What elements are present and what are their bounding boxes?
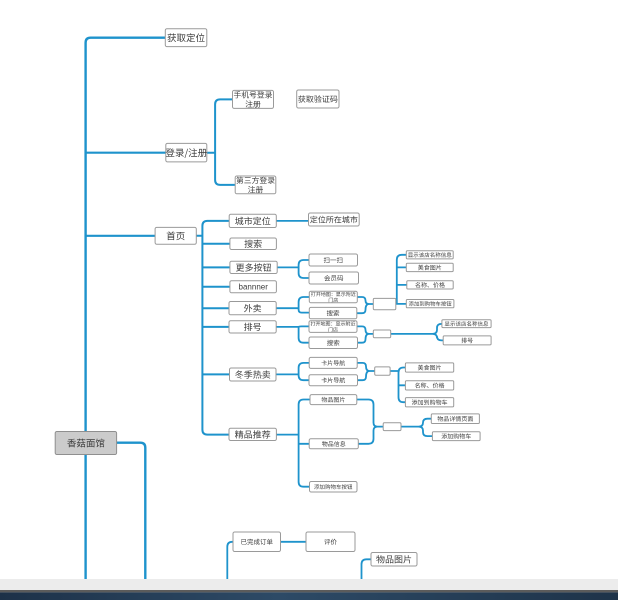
node 外卖 xyxy=(229,302,276,315)
node junction J2 xyxy=(373,330,390,338)
node junction J1 xyxy=(373,298,396,309)
node junction J3 xyxy=(375,367,390,375)
wire 精品推荐 converge J4 xyxy=(357,400,383,444)
node 物品图片 bottom xyxy=(371,553,417,567)
node 添加购物车按钮 xyxy=(310,482,358,493)
node 已完成订单 xyxy=(233,532,281,552)
node 添加到购物车 C3 xyxy=(405,398,453,407)
node 会员码 xyxy=(309,272,359,284)
node 卡片导航 1 xyxy=(309,357,357,368)
wire 排号 converge J2 xyxy=(357,326,373,342)
node 打开地图门店 1 xyxy=(309,291,357,303)
wire 冬季热卖 fork xyxy=(276,363,309,380)
node 搜索 sub1 xyxy=(309,307,357,318)
wire 城市定位 to 定位所在城市 xyxy=(276,220,308,222)
node 更多按钮 xyxy=(230,261,277,273)
node 首页 xyxy=(155,227,196,244)
wire J2 to leaves xyxy=(391,324,444,341)
wire 外卖 converge J1 xyxy=(357,297,374,313)
wire root right branch down xyxy=(117,443,146,579)
wire 更多按钮 fork xyxy=(277,260,309,278)
node bannner xyxy=(230,281,277,293)
node 名称价格 C2 xyxy=(405,381,453,390)
wire 首页 children fork xyxy=(196,221,230,435)
node 名称价格 A3 xyxy=(407,281,453,289)
node 登录/注册 xyxy=(166,143,207,162)
node 物品信息 xyxy=(309,439,358,449)
node 定位所在城市 xyxy=(309,213,360,226)
node 物品详情页面 D1 xyxy=(431,414,479,424)
wire root to 首页 xyxy=(86,235,156,237)
node 添加到购物车按钮 A4 xyxy=(406,300,454,308)
wire J1 to leaves xyxy=(396,255,407,304)
node 卡片导航 2 xyxy=(309,375,358,386)
node 显示该店名称信息 A1 xyxy=(406,251,453,259)
wire J3 to leaves xyxy=(390,368,405,403)
wire 冬季热卖 converge J3 xyxy=(357,363,375,380)
node 评价 xyxy=(306,532,355,552)
node 第三方登录注册 xyxy=(235,176,276,194)
node 物品图片 xyxy=(310,395,357,405)
wire 已完成订单 drop line xyxy=(227,542,233,579)
node 搜索 sub2 xyxy=(309,337,358,349)
taskbar xyxy=(0,592,618,600)
node 打开地图门店 2 xyxy=(309,321,357,333)
wire 排号 fork xyxy=(276,326,309,342)
wire 登录/注册 fork xyxy=(207,99,235,184)
node 扫一扫 xyxy=(309,254,358,266)
node junction J4 xyxy=(383,423,401,431)
svg-text:bannner: bannner xyxy=(239,283,269,292)
dark divider line xyxy=(0,590,618,592)
node 搜索 xyxy=(230,238,277,250)
scrollbar strip xyxy=(0,579,618,591)
wire spine root trunk xyxy=(86,38,166,579)
node 添加购物车 D2 xyxy=(432,432,480,441)
node 显示该店名称信息 B1 xyxy=(442,320,491,328)
wire J4 to leaves xyxy=(401,419,432,436)
node 冬季热卖 xyxy=(230,368,277,381)
node 美食图片 A2 xyxy=(406,263,453,271)
node 获取验证码 xyxy=(297,90,339,108)
wire 精品推荐 fork xyxy=(276,400,310,487)
wire 外卖 fork xyxy=(276,297,309,313)
wire 已完成订单 to 评价 xyxy=(281,541,307,543)
node 美食图片 C1 xyxy=(405,363,453,372)
node 排号 xyxy=(229,321,276,333)
wire root to 登录/注册 xyxy=(86,152,166,154)
node 手机号登录注册 xyxy=(233,90,274,108)
node 精品推荐 xyxy=(229,428,276,440)
node 获取定位 xyxy=(165,29,207,47)
node root 香菇面馆 xyxy=(55,432,116,455)
wire 物品图片 bottom drop line xyxy=(362,559,372,579)
node 城市定位 xyxy=(229,214,276,227)
node 排号 B2 xyxy=(443,336,491,345)
